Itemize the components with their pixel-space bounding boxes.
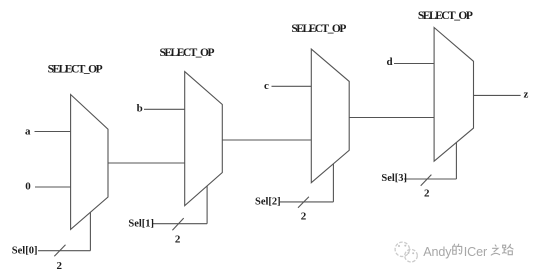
svg-text:a: a xyxy=(25,126,31,138)
svg-text:2: 2 xyxy=(175,234,181,246)
wire U4 output z xyxy=(474,94,521,96)
watermark hanzi ZHI (of) xyxy=(491,245,501,256)
wire input d to U4 xyxy=(394,63,434,65)
svg-text:2: 2 xyxy=(301,211,307,223)
watermark text Andy ICer (latin) with emboss xyxy=(423,245,488,260)
wire input a to U1 xyxy=(35,131,71,133)
svg-text:z: z xyxy=(524,89,529,101)
svg-text:SELECT_OP: SELECT_OP xyxy=(160,47,215,59)
svg-text:d: d xyxy=(387,56,393,68)
wire Sel[2] vertical to U3 xyxy=(332,164,334,202)
wire U1 output to U2 input xyxy=(108,162,185,164)
bus width slash Sel[2] xyxy=(298,197,309,208)
wire input c to U3 xyxy=(272,85,312,87)
svg-text:c: c xyxy=(264,80,269,92)
mux U2 body xyxy=(185,72,223,206)
wire Sel[0] vertical to U1 xyxy=(89,212,91,251)
watermark logo doodle xyxy=(395,242,417,262)
wire Sel[3] horizontal xyxy=(404,178,456,180)
svg-text:Sel[1]: Sel[1] xyxy=(128,219,154,230)
wire Sel[3] vertical to U4 xyxy=(455,143,457,180)
bus width slash Sel[1] xyxy=(172,218,183,230)
bus width slash Sel[0] xyxy=(54,245,65,256)
svg-text:SELECT_OP: SELECT_OP xyxy=(291,23,346,35)
mux U3 body xyxy=(311,49,349,183)
mux U4 body xyxy=(434,28,473,162)
svg-text:ICer: ICer xyxy=(464,245,487,259)
bus width slash Sel[3] xyxy=(421,175,432,186)
wire Sel[1] horizontal xyxy=(153,223,207,225)
svg-text:SELECT_OP: SELECT_OP xyxy=(418,10,473,22)
wire input 0 to U1 xyxy=(35,186,71,188)
svg-text:0: 0 xyxy=(25,181,31,193)
svg-text:2: 2 xyxy=(424,188,430,200)
wire U3 output to U4 input xyxy=(349,117,434,119)
svg-text:2: 2 xyxy=(57,260,63,272)
wire Sel[2] horizontal xyxy=(280,201,333,203)
mux U1 body xyxy=(71,95,108,230)
wire Sel[1] vertical to U2 xyxy=(206,186,208,224)
wire U2 output to U3 input xyxy=(222,139,311,141)
wire Sel[0] horizontal xyxy=(38,250,90,252)
svg-text:SELECT_OP: SELECT_OP xyxy=(48,63,103,75)
svg-text:Sel[0]: Sel[0] xyxy=(12,245,38,256)
svg-text:b: b xyxy=(137,102,143,114)
watermark hanzi DE (of) xyxy=(453,244,463,255)
svg-text:Sel[2]: Sel[2] xyxy=(255,197,281,208)
watermark hanzi LU (road) xyxy=(502,244,514,255)
svg-text:Sel[3]: Sel[3] xyxy=(381,173,407,184)
wire input b to U2 xyxy=(144,108,185,110)
svg-text:Andy: Andy xyxy=(423,245,452,259)
